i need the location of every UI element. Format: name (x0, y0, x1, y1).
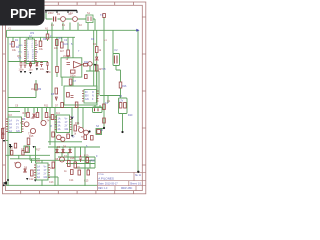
svg-text:GN: GN (16, 130, 20, 133)
svg-text:R17: R17 (36, 149, 41, 152)
svg-text:IC3: IC3 (8, 114, 12, 117)
svg-text:R10: R10 (23, 112, 28, 115)
svg-text:4A: 4A (58, 128, 61, 131)
svg-text:C12: C12 (29, 178, 34, 181)
svg-text:Date: 2013-05-17: Date: 2013-05-17 (98, 183, 118, 186)
svg-text:D10: D10 (128, 114, 133, 117)
svg-text:100n: 100n (46, 71, 52, 74)
svg-text:DRW: ABC: DRW: ABC (121, 187, 133, 190)
svg-text:LM358: LM358 (63, 55, 71, 58)
svg-text:GN: GN (65, 128, 69, 131)
svg-text:IC2A: IC2A (63, 43, 69, 46)
svg-text:JP1: JP1 (17, 55, 22, 58)
svg-text:IC5: IC5 (36, 160, 40, 163)
svg-text:12V: 12V (119, 100, 124, 103)
svg-text:R21: R21 (76, 167, 81, 170)
svg-text:230V: 230V (48, 12, 54, 15)
svg-text:REV: 1.0: REV: 1.0 (98, 188, 108, 190)
svg-text:C15: C15 (84, 180, 89, 183)
svg-text:C14: C14 (69, 179, 74, 182)
svg-text:10u: 10u (29, 69, 34, 72)
svg-text:TITLE:: TITLE: (98, 174, 104, 176)
svg-text:R19: R19 (84, 155, 89, 158)
svg-text:22u: 22u (40, 68, 45, 71)
svg-text:4A: 4A (37, 176, 40, 179)
svg-text:PDF: PDF (10, 6, 36, 21)
svg-text:R12: R12 (84, 61, 89, 64)
svg-text:4k7: 4k7 (99, 68, 104, 71)
svg-text:19: 19 (27, 60, 29, 62)
svg-text:4A: 4A (9, 130, 12, 133)
svg-text:1M: 1M (31, 88, 34, 91)
svg-text:20: 20 (32, 60, 34, 62)
svg-text:A PILONES: A PILONES (98, 177, 114, 181)
svg-text:R20: R20 (91, 160, 96, 163)
svg-text:100n: 100n (70, 75, 76, 78)
svg-text:C13: C13 (49, 181, 54, 184)
svg-text:R14: R14 (75, 122, 80, 125)
svg-text:100n: 100n (19, 69, 25, 72)
svg-text:R11: R11 (44, 105, 49, 108)
svg-text:IC4: IC4 (56, 112, 60, 115)
svg-text:R18: R18 (70, 157, 75, 160)
svg-text:Sheet: 1/1: Sheet: 1/1 (130, 183, 142, 186)
svg-text:R16: R16 (122, 85, 127, 88)
svg-text:4k7: 4k7 (60, 50, 65, 53)
svg-text:GN: GN (44, 176, 48, 179)
svg-text:VCC: VCC (18, 52, 23, 54)
svg-text:Nu 11: Nu 11 (135, 175, 142, 177)
svg-text:GN: GN (85, 98, 89, 101)
svg-text:GN: GN (1, 133, 5, 136)
